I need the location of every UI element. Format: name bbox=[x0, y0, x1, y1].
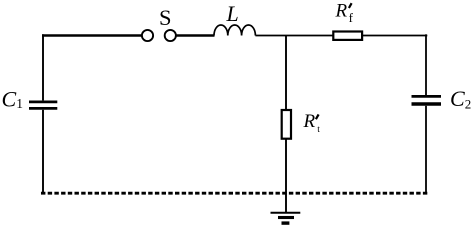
svg-text:L: L bbox=[226, 1, 239, 26]
wire inductor to node A bbox=[255, 35, 286, 37]
wire left vertical (top corner to C1) bbox=[42, 34, 44, 100]
wire switch to inductor bbox=[176, 34, 215, 37]
wire right vertical (top corner to C2) bbox=[425, 34, 427, 95]
wire right vertical (C2 to bottom corner) bbox=[425, 106, 427, 194]
wire top junction to resistor R'f bbox=[286, 35, 334, 37]
resistor R'f bbox=[333, 32, 362, 40]
capacitor C1 bbox=[29, 102, 57, 109]
capacitor C2 bbox=[412, 96, 442, 104]
ground bbox=[271, 213, 301, 223]
wire R'f to top-right corner bbox=[362, 35, 428, 37]
wire left vertical (C1 to bottom corner) bbox=[42, 110, 44, 194]
svg-text:S: S bbox=[159, 5, 172, 30]
wire bottom dashed bus bbox=[41, 192, 428, 195]
wire top-left horizontal (C1 top to switch) bbox=[42, 34, 142, 37]
resistor R't bbox=[282, 110, 291, 139]
wire middle vertical (R't through dashed bus to ground) bbox=[285, 140, 287, 213]
wire middle vertical (node A to R't) bbox=[285, 36, 287, 111]
inductor L bbox=[214, 25, 255, 36]
switch S bbox=[142, 30, 176, 41]
